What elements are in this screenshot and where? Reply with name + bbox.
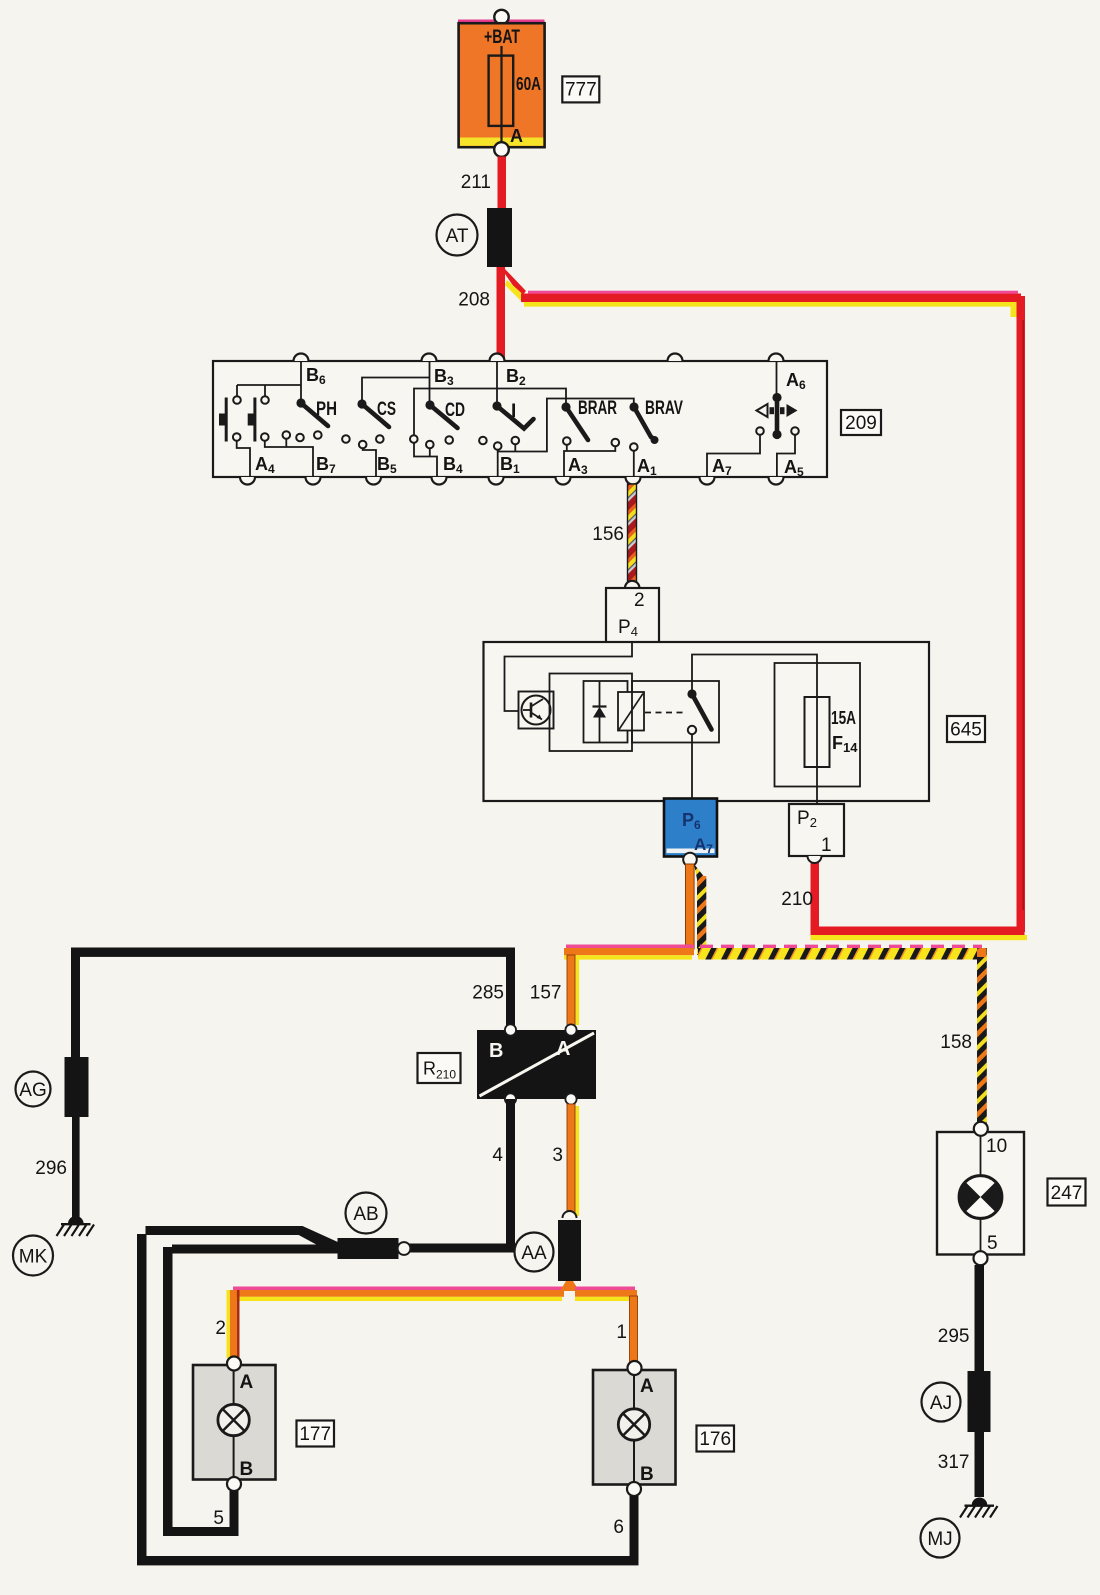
yellow companion under bottom red (811, 935, 1028, 940)
net B7 internal wiring (265, 441, 313, 478)
svg-text:A: A (510, 126, 523, 146)
svg-text:10: 10 (986, 1136, 1007, 1157)
svg-text:1: 1 (616, 1322, 627, 1343)
lamp 247 headlamp symbol (959, 1176, 1002, 1219)
red feed wire right vertical (1017, 296, 1026, 932)
svg-text:247: 247 (1051, 1183, 1083, 1204)
contact circles row (233, 396, 799, 451)
svg-text:157: 157 (530, 983, 562, 1004)
relay inner frame A (550, 674, 633, 752)
ground MK (68, 1216, 84, 1224)
svg-text:2: 2 (634, 590, 645, 611)
wire relay output to P6 (691, 735, 693, 799)
yellow companion wire under red feed (524, 302, 1017, 307)
svg-text:317: 317 (938, 1452, 970, 1473)
pins top of 209 (294, 354, 784, 362)
rheostat R210 body (477, 1030, 596, 1099)
svg-text:645: 645 (950, 720, 982, 741)
switch CS (357, 399, 366, 408)
svg-text:211: 211 (461, 172, 491, 193)
switch BRAV (629, 402, 638, 411)
red feed wire bottom horizontal (to wire 210) (811, 927, 1025, 936)
wire 158 striped vertical upper (697, 876, 706, 955)
svg-text:208: 208 (458, 290, 490, 311)
fuse sub-box (775, 663, 861, 787)
svg-text:AJ: AJ (930, 1393, 952, 1414)
push button 2 (253, 398, 256, 442)
net B4 internal wiring (rail to BRAR pivot) (414, 389, 566, 478)
tag box 177 (297, 1421, 335, 1447)
svg-text:AB: AB (353, 1204, 378, 1225)
push button 1 (225, 398, 228, 442)
connector AT (487, 208, 512, 267)
striped horizontal wire (698, 948, 987, 960)
switch BRAR (561, 402, 570, 411)
tag box 209 (841, 410, 881, 435)
svg-text:I: I (511, 401, 516, 422)
net A1 internal wiring (633, 451, 635, 477)
svg-text:177: 177 (299, 1424, 331, 1445)
right arm orange (to wire 1) (575, 1290, 637, 1297)
lamp unit 247 body (937, 1132, 1024, 1255)
net B1 internal wiring (rail to BRAV pivot) (498, 399, 634, 478)
tag box 176 (697, 1426, 735, 1452)
svg-text:285: 285 (472, 983, 504, 1004)
battery fuse unit 777 body (494, 10, 508, 24)
left arm yellow (230, 1297, 562, 1301)
connector P2 (789, 804, 844, 856)
ground MJ (972, 1498, 988, 1506)
connector AG (65, 1057, 89, 1117)
right arm yellow (575, 1297, 633, 1301)
red feed branch diagonal at AT output (501, 268, 526, 297)
svg-text:176: 176 (699, 1429, 731, 1450)
tag box 247 (1048, 1179, 1086, 1206)
switch I (492, 401, 501, 410)
svg-text:295: 295 (938, 1326, 970, 1347)
orange horizontal to wire 157 (564, 948, 694, 955)
svg-text:209: 209 (845, 413, 877, 434)
pin under P2 (808, 856, 822, 863)
battery fuse unit 777 yellow bottom strip (460, 138, 543, 146)
yellow companion under orange horizontal (564, 955, 692, 959)
svg-text:296: 296 (35, 1158, 67, 1179)
relay coil K (618, 692, 644, 731)
svg-text:60A: 60A (516, 74, 541, 94)
svg-text:A: A (556, 1038, 570, 1060)
right arm magenta fringe (575, 1287, 635, 1291)
net A6 internal wiring (776, 361, 778, 397)
wire fork under AA: magenta fringe left arm (233, 1287, 563, 1291)
transistor U (driver) (519, 692, 554, 729)
actuation dashed link (645, 712, 686, 714)
wire 285 left vertical to AG (71, 948, 80, 1058)
net A4 internal wiring (237, 441, 250, 478)
pin bottom of 777 (494, 142, 509, 157)
connector P4 (606, 588, 659, 643)
relay control feed wire from P4 (505, 643, 633, 711)
wire 5 (black, lamp 177 B return) (230, 1491, 239, 1535)
svg-text:AG: AG (19, 1080, 46, 1101)
svg-text:1: 1 (821, 835, 832, 856)
svg-text:3: 3 (552, 1145, 563, 1166)
wire fuse to P2 (816, 767, 818, 804)
wire 2 (orange, down to lamp 177) (227, 1290, 230, 1358)
yellow companion corner wrap (1011, 302, 1018, 317)
fork diagonals (560, 1281, 579, 1291)
wire 295 (black, 247 to AJ) (975, 1265, 985, 1371)
svg-text:BRAR: BRAR (578, 398, 617, 419)
svg-text:5: 5 (987, 1233, 998, 1254)
fuse F14 15A (805, 697, 830, 767)
svg-text:156: 156 (592, 524, 624, 545)
lamp 176 pins (628, 1361, 642, 1375)
wire 156 (striped, A1 to P4) (628, 484, 637, 585)
lamp 177 pins (227, 1357, 241, 1371)
pins bottom of 209 (240, 477, 784, 485)
fuse 60A symbol (489, 56, 514, 126)
R210 pins (505, 1024, 516, 1035)
connector AB (338, 1238, 399, 1259)
net A5 internal wiring (777, 435, 795, 477)
tag box 645 (947, 716, 985, 742)
lamp 247 pins (974, 1122, 988, 1136)
net B3 internal wiring (362, 361, 430, 402)
svg-text:6: 6 (613, 1517, 624, 1538)
left arm orange (to wire 2) (230, 1290, 564, 1297)
red feed wire top horizontal to right edge (521, 294, 1021, 303)
pin under A1 (already drawn) / pin top of P4 (625, 581, 639, 588)
tag box R210 (418, 1053, 461, 1083)
svg-text:PH: PH (316, 399, 337, 420)
switch unit 209 body (213, 361, 827, 477)
wire 1 (orange, down to lamp 176) (630, 1296, 638, 1363)
net A3 internal wiring (564, 445, 615, 477)
wire A7 orange down (686, 864, 695, 949)
wire switch common to fuse (692, 655, 817, 698)
svg-text:5: 5 (213, 1508, 224, 1529)
wire 6 (black, lamp 176 B return) (630, 1496, 639, 1559)
svg-text:158: 158 (940, 1032, 972, 1053)
relay module 645 body (484, 642, 930, 801)
svg-text:210: 210 (781, 889, 813, 910)
svg-text:CS: CS (377, 399, 396, 420)
relay switch frame (632, 681, 719, 743)
wire A7 striped branch diagonal (694, 864, 706, 890)
orange horizontal to wire 157: magenta fringe (566, 945, 694, 949)
lamp 177 body (193, 1365, 276, 1480)
relay inner frame B (584, 681, 628, 743)
net B6 internal wiring (237, 361, 301, 400)
wire 211 (red, battery to AT) (498, 157, 507, 209)
wire 4 (black, R210 to AB) (506, 1099, 515, 1252)
battery fuse unit 777 top magenta edge (458, 20, 545, 25)
connector AA (563, 1211, 577, 1218)
svg-text:4: 4 (492, 1145, 503, 1166)
wire 210 (red, up to P2) (811, 862, 820, 928)
lamp 176 body (593, 1370, 676, 1485)
mirror switch right arrow (787, 404, 798, 417)
relay switch contact (687, 689, 696, 698)
wire 285 top horizontal (71, 948, 515, 957)
wire 3 (orange, R210 to AA) (567, 1104, 575, 1216)
wire 296 (AG to ground MK) (72, 1117, 80, 1218)
svg-text:BRAV: BRAV (645, 398, 683, 419)
lamp 176 bulb symbol (618, 1409, 649, 1440)
svg-text:AA: AA (521, 1243, 547, 1264)
striped horizontal (A7 to 158): magenta dashes above (700, 945, 982, 948)
wire 157 vertical (orange) (567, 955, 575, 1025)
svg-text:777: 777 (565, 80, 597, 101)
connector P6/A7 (blue) (664, 799, 717, 857)
svg-text:CD: CD (445, 400, 465, 421)
lamp 177 bulb symbol (218, 1404, 249, 1435)
mirror switch left arrow (757, 404, 768, 417)
net B2 internal wiring (496, 361, 498, 402)
svg-text:A: A (640, 1376, 654, 1397)
wire 285 black: vertical above R210 (506, 948, 515, 1031)
wire 317 (AJ to ground MJ) (975, 1432, 985, 1497)
wire 158 striped vertical (977, 948, 987, 1125)
svg-text:B: B (240, 1459, 254, 1480)
svg-text:+BAT: +BAT (484, 27, 520, 48)
switch PH (296, 398, 305, 407)
svg-text:2: 2 (215, 1318, 226, 1339)
svg-text:AT: AT (446, 226, 469, 247)
connector AJ (968, 1371, 991, 1432)
net B5 internal wiring (363, 448, 376, 477)
flyback diode (599, 681, 601, 707)
pin under P6 (683, 853, 697, 867)
svg-text:A: A (240, 1372, 254, 1393)
svg-text:B: B (640, 1464, 654, 1485)
svg-text:MK: MK (19, 1247, 48, 1268)
mirror adjust switch bar (A6) (775, 397, 780, 435)
svg-text:MJ: MJ (927, 1529, 952, 1550)
net A7 internal wiring (707, 435, 760, 477)
magenta fringe above red feed wire (528, 291, 1018, 294)
yellow companion diagonal (505, 280, 527, 303)
wire inside 777 (500, 46, 502, 143)
switch CD (425, 400, 434, 409)
svg-text:15A: 15A (831, 708, 856, 728)
tag box 777 (562, 76, 599, 102)
wire 208 (red, AT to switch unit B2) (497, 267, 506, 359)
svg-text:B: B (489, 1040, 503, 1062)
